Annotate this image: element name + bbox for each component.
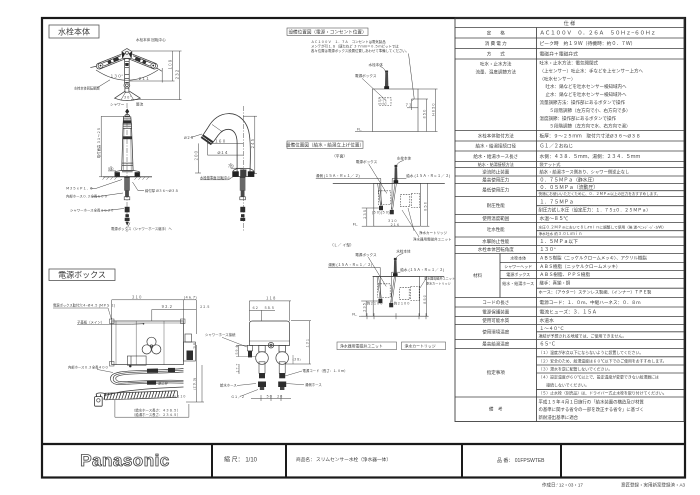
- hose bundle: [111, 369, 184, 385]
- svg-text:子基板（メイン）: 子基板（メイン）: [77, 319, 104, 324]
- svg-text:１．５ＭＰａ以下: １．５ＭＰａ以下: [540, 239, 579, 245]
- svg-text:（平面）: （平面）: [332, 154, 347, 159]
- mini faucet (A): [394, 165, 399, 183]
- svg-text:電源コード（長さ：１.０ｍ）: 電源コード（長さ：１.０ｍ）: [303, 368, 348, 373]
- svg-text:湯側ホース: 湯側ホース: [305, 382, 322, 387]
- svg-text:湯側 (１５Ａ・Ｒｃ１／ ２): 湯側 (１５Ａ・Ｒｃ１／ ２): [328, 262, 372, 267]
- svg-text:浄水カートリッジ: 浄水カートリッジ: [426, 281, 451, 286]
- svg-text:６５°Ｃ: ６５°Ｃ: [540, 342, 556, 348]
- svg-text:水栓本体 回転中心: 水栓本体 回転中心: [136, 37, 166, 42]
- svg-text:（吐水センサー）: （吐水センサー）: [540, 75, 576, 82]
- plan view: faucet top view with rotation arc: [90, 49, 164, 93]
- section label: power box: [49, 269, 115, 281]
- section label: equipment position (power outlet): [287, 28, 368, 36]
- svg-text:７９: ７９: [227, 164, 234, 168]
- svg-text:流量、温度調節方法: 流量、温度調節方法: [476, 69, 517, 76]
- section label: faucet body: [49, 25, 99, 38]
- svg-text:（上センサー）吐止水：手などを上センサー上方へ: （上センサー）吐止水：手などを上センサー上方へ: [540, 67, 644, 74]
- svg-text:電源ボックス: 電源ボックス: [58, 271, 106, 280]
- side view shank and connectors: [240, 177, 246, 221]
- front view leader labels: [66, 187, 178, 232]
- svg-text:浄水カートリッジ: 浄水カートリッジ: [405, 344, 436, 349]
- svg-text:最高給湯温度: 最高給湯温度: [482, 341, 509, 348]
- svg-text:０．０５ＭＰａ（流動圧）: ０．０５ＭＰａ（流動圧）: [540, 184, 599, 191]
- svg-text:温度調節：操作部にあるボタンで操作: 温度調節：操作部にあるボタンで操作: [540, 115, 617, 122]
- section label: equipment position (water supply risers): [286, 141, 364, 149]
- side view labels: [205, 332, 348, 399]
- svg-text:２１１: ２１１: [138, 77, 149, 81]
- spout direction arrow above tip: [125, 109, 129, 115]
- svg-text:(１０) １１０: (１０) １１０: [168, 395, 186, 399]
- svg-text:２００: ２００: [194, 151, 198, 162]
- svg-text:ＡＢＳ樹脂（ニッケルクロームメッキ）: ＡＢＳ樹脂（ニッケルクロームメッキ）: [540, 263, 621, 270]
- svg-text:作成日:' 12・03・17: 作成日:' 12・03・17: [542, 482, 583, 489]
- front view bottom dims: [186, 345, 204, 402]
- svg-text:５段階調節（左方向で小、右方向で多）: ５段階調節（左方向で小、右方向で多）: [550, 107, 631, 114]
- svg-text:１７.７: １７.７: [235, 363, 239, 373]
- svg-text:浄水器用電磁弁ユニット: 浄水器用電磁弁ユニット: [340, 344, 383, 349]
- spec table row grid lines: [455, 28, 684, 422]
- outlet diagram cabinet: [373, 89, 419, 132]
- svg-text:（３）湯水を逆に配管しないでください。: （３）湯水を逆に配管しないでください。: [539, 367, 613, 372]
- svg-text:ＡＢＳ樹脂（ニッケルクロームメッキ）、アクリル樹脂: ＡＢＳ樹脂（ニッケルクロームメッキ）、アクリル樹脂: [540, 255, 648, 262]
- shower spray cone (plan): [115, 91, 141, 100]
- svg-text:設備位置図（給水・給湯立上げ位置）: 設備位置図（給水・給湯立上げ位置）: [286, 142, 364, 149]
- svg-text:Ｇ１／２おねじ: Ｇ１／２おねじ: [540, 143, 574, 150]
- svg-text:給水ホース: 給水ホース: [220, 383, 237, 388]
- svg-text:２３５: ２３５: [362, 303, 366, 313]
- hose nuts (two circles): [256, 345, 289, 364]
- svg-text:使用環境温度: 使用環境温度: [482, 329, 509, 336]
- svg-text:電源コード：１．０ｍ、中継ハーネス：０．８ｍ: 電源コード：１．０ｍ、中継ハーネス：０．８ｍ: [540, 299, 641, 306]
- svg-text:約２１００: 約２１００: [394, 301, 410, 306]
- svg-text:Ø１４: Ø１４: [218, 151, 229, 155]
- svg-text:Ø２５: Ø２５: [184, 136, 194, 140]
- hose tails below: [258, 362, 286, 390]
- svg-text:(５０): (５０): [381, 211, 390, 215]
- front view height dimension: [99, 116, 124, 177]
- svg-text:取付面高 ３１〜２５: 取付面高 ３１〜２５: [96, 127, 101, 158]
- svg-text:３０°: ３０°: [124, 96, 132, 100]
- svg-text:水栓本体: 水栓本体: [396, 248, 411, 253]
- svg-text:商品名： スリムセンサー水栓（浄水器一体）: 商品名： スリムセンサー水栓（浄水器一体）: [296, 456, 391, 463]
- svg-text:各々位置は電源ボックス設置位置しあわせて準備してください。: 各々位置は電源ボックス設置位置しあわせて準備してください。: [311, 48, 409, 53]
- svg-text:最低使用圧力: 最低使用圧力: [482, 187, 509, 194]
- svg-text:２３５: ２３５: [363, 210, 367, 220]
- svg-text:品 番： 01FPSWTEB: 品 番： 01FPSWTEB: [497, 457, 545, 464]
- svg-text:シャワーホース接続: シャワーホース接続: [205, 332, 236, 337]
- svg-text:仕 様: 仕 様: [564, 20, 575, 27]
- svg-text:給水 (１５Ａ・Ｒｃ１／ ２): 給水 (１５Ａ・Ｒｃ１／ ２): [406, 173, 450, 178]
- svg-text:〔給湯ホース長さ：２３４.５〕: 〔給湯ホース長さ：２３４.５〕: [132, 412, 180, 417]
- svg-text:使用温度範囲: 使用温度範囲: [482, 215, 509, 222]
- svg-text:給水・給湯ホース: 給水・給湯ホース: [502, 280, 534, 286]
- svg-text:浄水吐水 約３.０Ｌ/ｍｉｎ: 浄水吐水 約３.０Ｌ/ｍｉｎ: [539, 231, 583, 236]
- front view faucet body: [115, 114, 140, 176]
- power cable with plug: [95, 387, 184, 406]
- svg-text:吐水・止水方法: 吐水・止水方法: [480, 61, 512, 68]
- svg-text:意匠登録・実用新案登録済・A3: 意匠登録・実用新案登録済・A3: [621, 482, 686, 489]
- labels (A): [316, 155, 450, 226]
- svg-text:１．７５ＭＰａ: １．７５ＭＰａ: [540, 199, 574, 205]
- svg-text:水栓本体取付方法: 水栓本体取付方法: [478, 132, 514, 139]
- svg-text:耐圧性能: 耐圧性能: [487, 202, 505, 209]
- svg-text:の基準に関する省令の一部を改正する省令」に基づく: の基準に関する省令の一部を改正する省令」に基づく: [539, 406, 644, 413]
- svg-text:使用可能水質: 使用可能水質: [482, 317, 509, 324]
- rotation range arc 130 degrees: [96, 70, 158, 80]
- svg-text:１０８: １０８: [169, 59, 173, 70]
- svg-text:６２: ６２: [252, 306, 258, 310]
- svg-text:ホース：（アウター）ステンレス製網、（インナー）ＴＰＥ製: ホース：（アウター）ステンレス製網、（インナー）ＴＰＥ製: [539, 289, 652, 296]
- svg-text:０．７５ＭＰａ（静水圧）: ０．７５ＭＰａ（静水圧）: [540, 176, 598, 183]
- svg-text:ピーク時 約１９Ｗ（待機時：約０．７Ｗ）: ピーク時 約１９Ｗ（待機時：約０．７Ｗ）: [540, 40, 636, 47]
- svg-text:電源保護装置: 電源保護装置: [482, 308, 509, 315]
- svg-text:５９.４: ５９.４: [235, 345, 239, 355]
- svg-text:(５０): (５０): [372, 211, 381, 215]
- svg-text:シャワー: シャワー: [110, 102, 125, 107]
- threaded shank: [124, 177, 130, 200]
- svg-text:水側：４３８．５ｍｍ、湯側：２３４．５ｍｍ: 水側：４３８．５ｍｍ、湯側：２３４．５ｍｍ: [540, 153, 641, 160]
- svg-text:５０: ５０: [108, 167, 115, 171]
- svg-text:板厚：９〜２５ｍｍ 取付穴寸法Ø３６〜Ø３８: 板厚：９〜２５ｍｍ 取付穴寸法Ø３６〜Ø３８: [540, 132, 641, 139]
- svg-text:継手：真鍮・銅: 継手：真鍮・銅: [540, 280, 571, 287]
- svg-text:給水 (１５Ａ・Ｒｃ１／ ２): 給水 (１５Ａ・Ｒｃ１／ ２): [400, 267, 444, 272]
- svg-text:吐水性能: 吐水性能: [487, 226, 505, 233]
- svg-text:水栓本体: 水栓本体: [397, 155, 412, 160]
- small board component: [127, 356, 146, 367]
- svg-text:止水：鍋などを吐水センサー検知域外へ: 止水：鍋などを吐水センサー検知域外へ: [546, 91, 627, 98]
- svg-text:ﾊｯﾁｭｳ: ﾊｯﾁｭｳ: [380, 102, 387, 106]
- svg-text:浄水カートリッジ: 浄水カートリッジ: [419, 230, 447, 235]
- svg-text:２０: ２０: [277, 394, 283, 398]
- svg-text:１６０: １６０: [215, 139, 226, 143]
- svg-text:方 式: 方 式: [487, 50, 505, 57]
- svg-text:２１０: ２１０: [132, 295, 143, 299]
- svg-text:１１８: １１８: [266, 297, 277, 301]
- power box side view outline: [249, 321, 289, 348]
- labels (B): [328, 248, 444, 316]
- svg-text:１〜４０°Ｃ: １〜４０°Ｃ: [540, 326, 565, 331]
- svg-text:(３８): (３８): [293, 357, 301, 361]
- svg-text:消 費 電 力: 消 費 電 力: [485, 40, 507, 47]
- svg-text:水栓本体: 水栓本体: [58, 27, 90, 37]
- svg-text:メンテが引１.８（速たねど ３７ｍｍ＝０.５ｍピットでは: メンテが引１.８（速たねど ３７ｍｍ＝０.５ｍピットでは: [311, 44, 399, 49]
- svg-text:コードの長さ: コードの長さ: [482, 299, 509, 306]
- counter top line with hatching: [102, 177, 152, 180]
- long leader from notes: [409, 54, 415, 99]
- mini faucet (B): [393, 258, 398, 276]
- hose connectors below: [125, 207, 130, 221]
- svg-text:ＡＢＳ樹脂、ＰＰＳ樹脂: ＡＢＳ樹脂、ＰＰＳ樹脂: [540, 271, 591, 278]
- svg-text:シャワーヘッド: シャワーヘッド: [504, 264, 532, 269]
- diagram2 bottom dim line: [359, 313, 428, 319]
- install diagram cabinet (B): [373, 276, 445, 316]
- svg-text:整流: 整流: [136, 102, 144, 107]
- svg-text:水栓本体: 水栓本体: [369, 62, 384, 67]
- svg-text:浄水器電磁弁ユニット: 浄水器電磁弁ユニット: [424, 276, 455, 281]
- svg-text:２２.５: ２２.５: [200, 305, 210, 309]
- side view center line: [242, 106, 244, 232]
- title block vertical dividers: [212, 444, 561, 477]
- svg-text:流量調節方法：操作部にあるボタンで操作: 流量調節方法：操作部にあるボタンで操作: [540, 99, 626, 106]
- svg-text:電源ボックス（シャワーホース継手）へ: 電源ボックス（シャワーホース継手）へ: [111, 226, 172, 231]
- svg-text:８５０: ８５０: [424, 202, 428, 212]
- mini faucet symbol: [384, 71, 389, 90]
- svg-text:Panasonic: Panasonic: [80, 451, 170, 470]
- svg-text:水圧０.２ＭＰａにおいて８Ｌ/ｍｉｎに調整して使用（後 述べ: 水圧０.２ＭＰａにおいて８Ｌ/ｍｉｎに調整して使用（後 述べﾆｬｼﾞ･ｼﾞ･ｶ/…: [539, 224, 666, 229]
- svg-text:給水・給湯接続方法: 給水・給湯接続方法: [478, 161, 514, 167]
- svg-text:２１６: ２１６: [390, 223, 400, 227]
- side view dims: [236, 301, 311, 401]
- svg-text:吐水・止水方法：電気開閉式: 吐水・止水方法：電気開閉式: [540, 60, 599, 67]
- svg-text:FL.: FL.: [353, 222, 358, 226]
- svg-text:給水・給湯接続口径: 給水・給湯接続口径: [476, 143, 517, 150]
- svg-text:電源ボックス取付穴４−Ø４.５ (ＭＰＳ ２): 電源ボックス取付穴４−Ø４.５ (ＭＰＳ ２): [53, 303, 115, 308]
- hose length notes: [132, 408, 180, 417]
- trefoil component (cable grommet): [142, 337, 161, 354]
- svg-text:１３０°: １３０°: [110, 74, 123, 78]
- svg-text:９２.２: ９２.２: [161, 305, 172, 309]
- riser connection points (A): [379, 206, 383, 210]
- svg-text:電流ヒューズ：３．１５Ａ: 電流ヒューズ：３．１５Ａ: [540, 308, 597, 315]
- svg-text:２４５: ２４５: [251, 139, 255, 150]
- svg-text:２３２: ２３２: [176, 69, 180, 80]
- svg-text:（４）設定温度が６０℃以上で、設定温度が変更できない給湯器に: （４）設定温度が６０℃以上で、設定温度が変更できない給湯器には: [539, 374, 660, 379]
- side view gooseneck spout: [201, 114, 250, 174]
- svg-text:備 考: 備 考: [489, 406, 503, 413]
- spec table cell texts: [473, 20, 667, 421]
- down arrow at bottom of connector stack: [125, 222, 129, 226]
- svg-text:(２９.３): (２９.３): [193, 378, 197, 390]
- svg-text:８５０: ８５０: [423, 295, 427, 305]
- svg-text:ＡＣ１００Ｖ ０．２６Ａ ５０Ｈｚ−６０Ｈｚ: ＡＣ１００Ｖ ０．２６Ａ ５０Ｈｚ−６０Ｈｚ: [540, 31, 656, 37]
- svg-text:縮 尺： 1/10: 縮 尺： 1/10: [224, 456, 258, 464]
- power box front dims: [112, 300, 197, 334]
- svg-text:水栓本体: 水栓本体: [510, 255, 526, 261]
- title block separator line: [42, 443, 685, 445]
- svg-text:湯側 (１５Ａ・Ｒｃ１／ ２): 湯側 (１５Ａ・Ｒｃ１／ ２): [316, 173, 360, 178]
- svg-text:８５０: ８５０: [423, 109, 427, 119]
- svg-text:FL.: FL.: [357, 128, 362, 132]
- svg-text:電磁弁＋電磁弁式: 電磁弁＋電磁弁式: [540, 50, 579, 57]
- svg-text:新耐浸出基準に適合: 新耐浸出基準に適合: [539, 414, 579, 421]
- svg-text:逆止弁: 逆止弁: [158, 380, 169, 385]
- svg-text:ＡＣ１００Ｖ １．７Ａ コンセントは電気製品: ＡＣ１００Ｖ １．７Ａ コンセントは電気製品: [311, 39, 386, 44]
- svg-text:指定事項: 指定事項: [487, 369, 505, 376]
- svg-text:水撃防止性能: 水撃防止性能: [482, 238, 509, 245]
- svg-text:５段階調節（左方向で水、右方向で湯）: ５段階調節（左方向で水、右方向で湯）: [550, 123, 631, 130]
- side view base flange: [233, 169, 254, 177]
- svg-text:Ｍ３５ｘＰ１．５: Ｍ３５ｘＰ１．５: [66, 187, 93, 191]
- power notes text: [311, 39, 409, 53]
- svg-text:FL.: FL.: [352, 312, 357, 316]
- svg-text:(４６.７): (４６.７): [184, 295, 197, 299]
- svg-text:給水・給湯ホース長さ: 給水・給湯ホース長さ: [473, 153, 518, 160]
- svg-text:凍結が予想される地域では、ご使用できません。: 凍結が予想される地域では、ご使用できません。: [539, 332, 627, 338]
- svg-text:水栓基準面 回転中心: 水栓基準面 回転中心: [200, 175, 231, 180]
- svg-text:１３１: １３１: [306, 338, 310, 348]
- svg-text:（１）温度が氷点以下にならないように設置してください。: （１）温度が氷点以下にならないように設置してください。: [539, 350, 644, 355]
- svg-text:吐水：鍋などを吐水センサー検知域内へ: 吐水：鍋などを吐水センサー検知域内へ: [546, 83, 627, 90]
- svg-text:５８.５: ５８.５: [264, 306, 274, 310]
- svg-text:平成１５年４月１日施行の「給水装置の構造及び材質: 平成１５年４月１日施行の「給水装置の構造及び材質: [539, 398, 645, 405]
- svg-text:水栓本体回転角度: 水栓本体回転角度: [478, 246, 514, 253]
- plan view dimensions: [130, 51, 182, 100]
- svg-text:７２: ７２: [405, 103, 412, 107]
- svg-text:（５）止水栓（別売品）は、ドライバー式止水栓を取り付けてくだ: （５）止水栓（別売品）は、ドライバー式止水栓を取り付けてください。: [539, 391, 667, 396]
- svg-text:〔給水ホース長さ：４３８.５〕: 〔給水ホース長さ：４３８.５〕: [132, 408, 180, 413]
- boxed labels for filter unit: [337, 342, 446, 350]
- power box front view outline: [110, 319, 186, 366]
- side view dimensions: [191, 116, 258, 174]
- svg-text:袋ナット式: 袋ナット式: [540, 161, 562, 168]
- svg-text:（２）安全のため、給湯温度は６０℃以下でのご使用をおすすめし: （２）安全のため、給湯温度は６０℃以下でのご使用をおすすめします。: [539, 358, 667, 363]
- svg-text:９４: ９４: [192, 343, 196, 349]
- vertical dims 850: [412, 89, 438, 132]
- svg-text:材料: 材料: [473, 272, 482, 279]
- right outlet connector: [183, 334, 195, 361]
- hose hatch segments: [147, 368, 175, 385]
- svg-text:内部ホース０.３全長４００: 内部ホース０.３全長４００: [68, 364, 108, 369]
- svg-text:シャワーホース全長１６３０: シャワーホース全長１６３０: [70, 208, 114, 213]
- front view center line: [126, 103, 128, 232]
- svg-text:耐圧力試し水圧（設定圧力：１．７５±０．２５ＭＰａ）: 耐圧力試し水圧（設定圧力：１．７５±０．２５ＭＰａ）: [539, 207, 651, 214]
- svg-text:電源ボックス: 電源ボックス: [506, 271, 530, 277]
- svg-text:電源ボックス: 電源ボックス: [355, 252, 377, 257]
- svg-text:１３０°: １３０°: [540, 247, 556, 253]
- side view left connector: [248, 345, 253, 357]
- svg-text:定 格: 定 格: [487, 29, 505, 36]
- svg-text:電源ボックス: 電源ボックス: [355, 73, 377, 78]
- svg-text:締付厚 Ø３６〜Ø３８: 締付厚 Ø３６〜Ø３８: [145, 188, 178, 193]
- install diagram cabinet (A): [333, 183, 445, 226]
- svg-text:水栓本体回転範囲: 水栓本体回転範囲: [74, 86, 100, 91]
- riser connection points (B): [378, 299, 382, 303]
- svg-text:逆流防止装置: 逆流防止装置: [482, 168, 509, 175]
- svg-text:接続しないでください。: 接続しないでください。: [539, 383, 589, 388]
- svg-text:約２１００: 約２１００: [367, 301, 383, 306]
- svg-text:給水・給湯ホース側あり、シャワー側逆止なし: 給水・給湯ホース側あり、シャワー側逆止なし: [540, 168, 630, 175]
- svg-text:設備位置図（電源・コンセント位置）: 設備位置図（電源・コンセント位置）: [288, 29, 366, 36]
- svg-text:水道水: 水道水: [540, 317, 555, 324]
- svg-text:水温〜８５℃: 水温〜８５℃: [540, 215, 569, 222]
- svg-text:５０: ５０: [266, 394, 272, 398]
- svg-text:Ｇ１／２: Ｇ１／２: [231, 394, 245, 399]
- svg-text:（Ｌ／ イ型）: （Ｌ／ イ型）: [330, 243, 354, 248]
- svg-text:快適にお使いいただくために、０．２ＭＰａ以上の圧力をおすすめ: 快適にお使いいただくために、０．２ＭＰａ以上の圧力をおすすめします。: [539, 191, 661, 196]
- svg-text:電源ボックス: 電源ボックス: [356, 159, 378, 164]
- svg-text:Ｈ８５０: Ｈ８５０: [432, 103, 436, 116]
- svg-text:最高使用圧力: 最高使用圧力: [482, 176, 509, 183]
